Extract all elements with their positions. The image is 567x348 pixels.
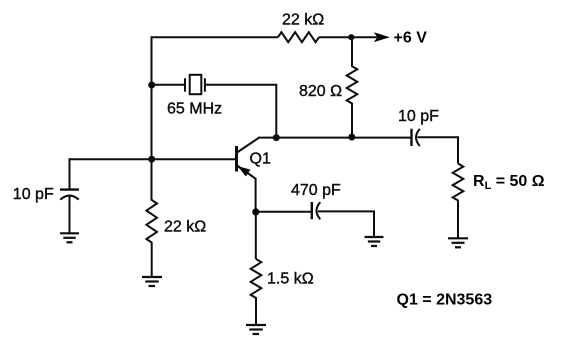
transistor Q1 collector lead — [237, 138, 259, 153]
transistor Q1 emitter lead — [237, 166, 256, 213]
crystal Y1 right electrode — [204, 78, 206, 91]
capacitor C3 10 pF (right, straight plate) — [410, 129, 412, 146]
wire from left rail to crystal — [152, 84, 185, 86]
node 820/output junction — [348, 134, 355, 141]
capacitor C1 10 pF straight top plate — [60, 188, 79, 190]
node collector junction — [273, 134, 280, 141]
wire top horizontal from left vertical to resistor R1 — [152, 36, 279, 38]
wire base row from left cap corner to transistor base — [70, 158, 236, 160]
capacitor C2 470 pF straight plate — [311, 202, 313, 219]
ground G5 for RL — [448, 238, 468, 247]
wire emitter row to C2 — [256, 211, 311, 213]
svg-text:Q1 = 2N3563: Q1 = 2N3563 — [397, 291, 493, 308]
svg-text:22 kΩ: 22 kΩ — [282, 12, 324, 29]
wire C3 to RL corner — [418, 137, 459, 163]
node base/rail junction — [148, 156, 155, 163]
svg-text:820 Ω: 820 Ω — [299, 83, 342, 100]
resistor R3 22 kOhm (left vertical) — [146, 199, 157, 277]
svg-text:10 pF: 10 pF — [13, 186, 54, 203]
capacitor C1 curved bottom plate — [60, 196, 79, 200]
svg-text:+6 V: +6 V — [394, 30, 428, 47]
ground G4 for C2 — [365, 237, 384, 246]
arrow to +6 V supply — [374, 32, 390, 42]
wire crystal to collector drop — [205, 85, 276, 138]
ground G2 for R3 — [142, 277, 162, 286]
svg-text:Q1: Q1 — [250, 151, 271, 168]
resistor R1 22 kOhm (top, horizontal) — [278, 32, 319, 42]
capacitor C2 curved plate — [317, 202, 321, 219]
svg-text:10 pF: 10 pF — [398, 108, 439, 125]
ground G1 for C1 — [60, 233, 79, 242]
svg-text:22 kΩ: 22 kΩ — [164, 219, 206, 236]
transistor Q1 base bar — [235, 146, 238, 172]
wire C2 to ground corner — [318, 211, 374, 237]
wire from R1 to +6V node — [319, 36, 377, 38]
resistor R2 820 Ohm (vertical) — [347, 37, 358, 137]
resistor R4 1.5 kOhm (vertical) — [251, 259, 262, 325]
ground G3 for R4 — [246, 325, 266, 334]
wire left vertical rail — [151, 36, 153, 200]
resistor R5 RL (vertical) — [453, 164, 464, 239]
crystal Y1 65 MHz left electrode — [184, 78, 186, 91]
node emitter junction — [252, 208, 259, 215]
capacitor C3 curved plate — [416, 129, 420, 146]
transistor Q1 emitter arrowhead — [238, 166, 251, 176]
wire left cap drop — [69, 158, 71, 189]
node at +6V rail junction — [348, 34, 354, 40]
svg-text:1.5 kΩ: 1.5 kΩ — [267, 271, 314, 288]
svg-text:470 pF: 470 pF — [291, 182, 341, 199]
svg-text:65 MHz: 65 MHz — [167, 100, 222, 117]
wire emitter to R4 — [255, 211, 257, 259]
crystal Y1 body rectangle — [190, 75, 202, 94]
wire collector row y=137.5 — [258, 137, 411, 139]
svg-text:RL = 50 Ω: RL = 50 Ω — [473, 173, 545, 192]
node crystal junction on left rail — [148, 82, 155, 89]
wire C1 to ground — [69, 197, 71, 234]
